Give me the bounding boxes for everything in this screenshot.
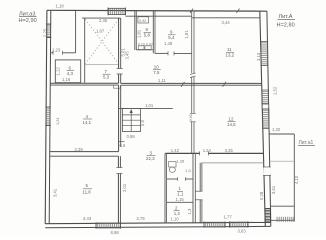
wall V5 between rooms 8 and 9 bbox=[153, 11, 155, 54]
window B2 bottom wall bbox=[204, 221, 225, 227]
dim tick top wall 2 bbox=[237, 9, 240, 14]
svg-text:3,45: 3,45 bbox=[125, 51, 130, 60]
svg-text:4,10: 4,10 bbox=[294, 175, 299, 184]
room 5 label bbox=[83, 183, 93, 195]
interior wall H3 with door gap bbox=[50, 51, 76, 55]
annex steps hatch bbox=[276, 217, 294, 222]
title Lit.a3 bbox=[19, 11, 37, 23]
svg-text:3,43: 3,43 bbox=[83, 216, 92, 221]
svg-text:1,81: 1,81 bbox=[184, 30, 189, 39]
svg-text:2,45: 2,45 bbox=[99, 18, 108, 23]
svg-text:0,92: 0,92 bbox=[139, 19, 146, 23]
window B1 bottom wall bbox=[96, 222, 121, 229]
room 1 label bbox=[177, 186, 184, 196]
window L1 left wall bbox=[46, 24, 52, 38]
stairs diagonal dotted 2 bbox=[86, 20, 119, 64]
room 2 left wall with door bbox=[195, 163, 202, 224]
svg-text:10: 10 bbox=[154, 64, 159, 69]
bath partition 2 bbox=[167, 201, 193, 203]
outer wall right (inner line) bbox=[260, 11, 266, 226]
tambour bottom light line bbox=[85, 63, 119, 65]
window R3 right wall bbox=[263, 109, 269, 129]
wall H_E room5 top double bbox=[50, 152, 118, 157]
window R2 right wall bbox=[262, 90, 269, 104]
svg-text:1,52: 1,52 bbox=[272, 86, 277, 95]
svg-text:0,9: 0,9 bbox=[140, 120, 145, 126]
window L2 left wall bbox=[45, 107, 51, 126]
svg-text:3,44: 3,44 bbox=[222, 20, 231, 25]
annex interior line bbox=[270, 160, 294, 162]
svg-text:1,28: 1,28 bbox=[177, 158, 186, 163]
svg-text:1,12: 1,12 bbox=[55, 67, 60, 76]
svg-text:1,42: 1,42 bbox=[171, 148, 180, 153]
room 10 label bbox=[153, 64, 161, 74]
svg-text:3,35: 3,35 bbox=[225, 148, 234, 153]
svg-text:1,2: 1,2 bbox=[174, 211, 181, 216]
interior wall H5 double bbox=[50, 83, 119, 85]
tambour left wall bbox=[84, 18, 86, 83]
svg-text:1,18: 1,18 bbox=[56, 4, 65, 9]
svg-text:11: 11 bbox=[227, 47, 232, 52]
annex a1 top wall bbox=[269, 133, 294, 135]
outer wall bottom (bottom line) bbox=[45, 226, 271, 227]
top wall inner line room 11 bbox=[192, 17, 261, 19]
window T1 top wall bbox=[108, 8, 126, 16]
outer wall left (inner line) bbox=[49, 10, 51, 223]
window B3 bottom wall bbox=[230, 221, 249, 227]
stair tick line bbox=[119, 141, 125, 143]
svg-text:0,10 0,92: 0,10 0,92 bbox=[138, 42, 153, 46]
svg-text:1,87: 1,87 bbox=[96, 29, 105, 34]
svg-text:1,48: 1,48 bbox=[164, 41, 173, 46]
svg-text:2,75: 2,75 bbox=[137, 216, 146, 221]
room 6 label bbox=[67, 65, 75, 76]
svg-text:1,32: 1,32 bbox=[272, 127, 281, 132]
svg-text:7,5: 7,5 bbox=[153, 70, 160, 75]
svg-text:1,24: 1,24 bbox=[203, 148, 212, 153]
wall H_D inner line bbox=[201, 162, 264, 164]
annex bottom line 2 bbox=[271, 219, 295, 221]
svg-text:3,41: 3,41 bbox=[53, 188, 58, 197]
svg-text:1,11: 1,11 bbox=[158, 78, 167, 83]
svg-text:5,3: 5,3 bbox=[103, 74, 110, 79]
svg-text:1,0: 1,0 bbox=[185, 168, 191, 173]
room 9 label bbox=[168, 30, 176, 40]
svg-text:2,01: 2,01 bbox=[122, 183, 127, 192]
window R5 right wall dark bbox=[265, 209, 271, 222]
svg-text:1,81: 1,81 bbox=[137, 29, 142, 38]
svg-text:0,6: 0,6 bbox=[120, 143, 126, 148]
top wall inner line rooms 8-9 bbox=[126, 15, 192, 17]
svg-text:0,98: 0,98 bbox=[127, 134, 136, 139]
wall H_B double bbox=[121, 83, 262, 85]
wall H_D bbox=[165, 151, 263, 155]
stairs diagonal dotted 1 bbox=[86, 20, 119, 64]
bath partition 1 bbox=[167, 177, 193, 181]
window R1 right wall bbox=[261, 42, 268, 66]
svg-text:5,8: 5,8 bbox=[144, 33, 151, 38]
window mullion box bbox=[262, 104, 269, 109]
svg-text:3,63: 3,63 bbox=[238, 228, 247, 233]
room 7 label bbox=[103, 69, 111, 79]
room 8 left wall V4 bbox=[135, 11, 137, 50]
svg-text:2,25: 2,25 bbox=[42, 28, 47, 37]
svg-text:4,3: 4,3 bbox=[67, 71, 74, 76]
room 8 label bbox=[144, 27, 152, 37]
dim tick H_B 2 bbox=[223, 82, 227, 87]
room 8 fixtures bbox=[138, 46, 151, 50]
svg-text:0,92: 0,92 bbox=[189, 114, 193, 121]
svg-text:0,28: 0,28 bbox=[259, 191, 264, 200]
svg-text:14,5: 14,5 bbox=[227, 122, 236, 127]
svg-text:3,39: 3,39 bbox=[75, 147, 84, 152]
central wall V2 middle bbox=[119, 85, 121, 151]
door threshold near V2 in H5 bbox=[114, 85, 121, 88]
svg-text:3,13: 3,13 bbox=[256, 52, 261, 61]
annex bottom line 1 bbox=[270, 205, 294, 207]
svg-text:Н=2,80: Н=2,80 bbox=[277, 23, 295, 29]
staircase bbox=[122, 108, 140, 131]
outer wall left (outer line) bbox=[45, 10, 47, 223]
dim tick H_B 1 bbox=[181, 82, 185, 87]
svg-text:1,16: 1,16 bbox=[62, 77, 71, 82]
room 2 small label bbox=[174, 205, 181, 215]
outer wall bottom (top line) bbox=[45, 222, 271, 223]
interior wall V1 bbox=[75, 11, 77, 53]
svg-text:22,3: 22,3 bbox=[146, 156, 155, 161]
svg-text:13,2: 13,2 bbox=[226, 53, 235, 58]
central wall V2 upper bbox=[117, 18, 123, 83]
svg-text:11,8: 11,8 bbox=[83, 190, 92, 195]
svg-text:1,01: 1,01 bbox=[145, 103, 154, 108]
room 11 label bbox=[226, 47, 235, 57]
svg-text:5,4: 5,4 bbox=[168, 35, 175, 40]
door jamb right wall top bbox=[263, 166, 271, 168]
outer wall top bbox=[47, 9, 267, 12]
svg-text:1,23: 1,23 bbox=[52, 48, 61, 53]
svg-text:14,1: 14,1 bbox=[83, 120, 92, 125]
outer wall right (outer line) bbox=[267, 11, 271, 226]
dim tick top wall bbox=[190, 9, 193, 14]
wall H_C bbox=[119, 107, 173, 109]
title Lit.A bbox=[277, 14, 296, 28]
wall V3 long bbox=[189, 11, 196, 154]
annex a1 right wall bbox=[293, 134, 295, 222]
room 6 box bbox=[55, 60, 80, 83]
svg-text:1,51: 1,51 bbox=[55, 117, 60, 125]
room 12 label bbox=[227, 116, 236, 126]
svg-text:1,3: 1,3 bbox=[187, 208, 192, 214]
room 9 bottom wall with door bbox=[155, 51, 192, 55]
svg-text:8,98: 8,98 bbox=[111, 230, 120, 235]
svg-text:1,15: 1,15 bbox=[176, 197, 185, 202]
bathroom block left wall bbox=[165, 153, 167, 223]
room 8 bottom wall bbox=[136, 49, 153, 51]
svg-text:1,10: 1,10 bbox=[171, 216, 180, 221]
svg-text:12: 12 bbox=[229, 116, 234, 121]
room 4 label bbox=[83, 114, 93, 125]
door box 0.92 room8 top bbox=[138, 17, 149, 23]
room 3 label bbox=[146, 150, 156, 160]
toilet fixture bbox=[169, 162, 176, 173]
door gap right wall bbox=[264, 167, 271, 175]
svg-text:1,77: 1,77 bbox=[224, 214, 233, 219]
svg-text:3,61: 3,61 bbox=[271, 185, 276, 194]
tambour top wall bbox=[82, 17, 121, 19]
central wall V2 lower bbox=[116, 156, 122, 223]
door jamb right wall bottom bbox=[263, 175, 271, 177]
title Lit.a1 bbox=[298, 140, 315, 146]
bathroom block right wall bbox=[193, 153, 195, 223]
svg-text:Н=2,90: Н=2,90 bbox=[19, 18, 37, 24]
